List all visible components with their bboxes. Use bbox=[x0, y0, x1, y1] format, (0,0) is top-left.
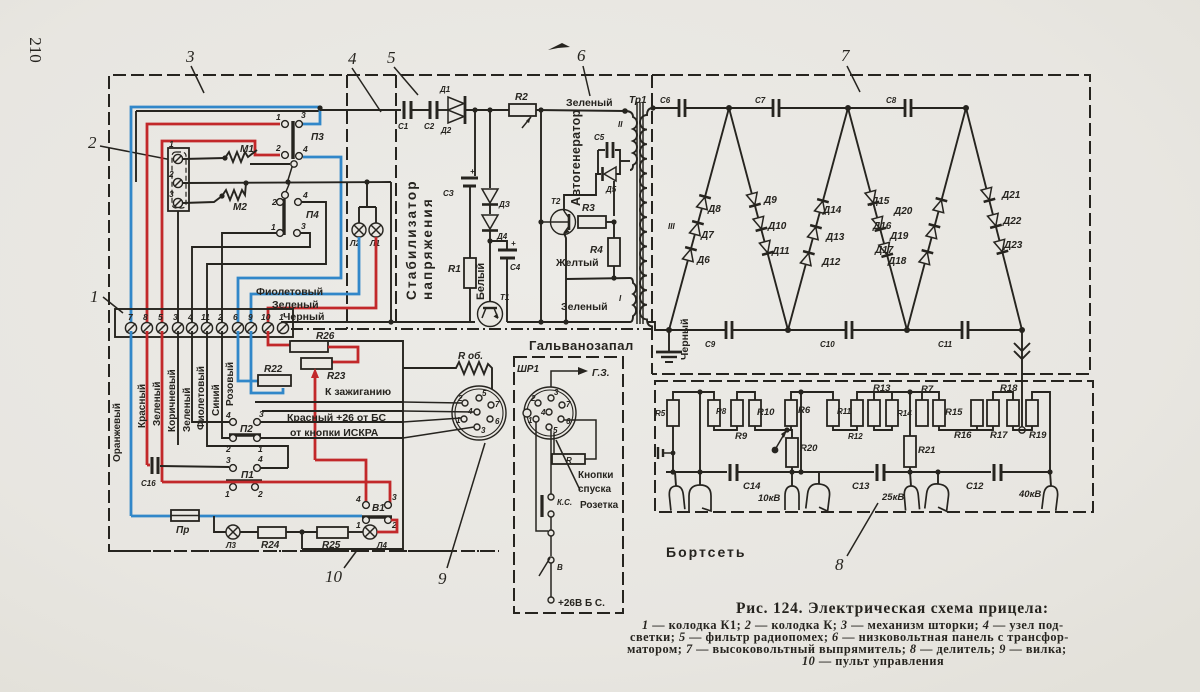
vertical color names bbox=[112, 362, 236, 462]
svg-text:R23: R23 bbox=[327, 371, 346, 382]
wire: C3 branch bbox=[474, 110, 476, 176]
svg-text:+: + bbox=[470, 167, 475, 176]
capacitor С11 bbox=[962, 321, 968, 339]
svg-text:Д15: Д15 bbox=[870, 196, 890, 207]
diode Д11 bbox=[759, 240, 774, 255]
resistor R23 bbox=[301, 358, 332, 369]
resistor R19 bbox=[1026, 400, 1038, 426]
wire: Д3-Д4 branch bbox=[489, 110, 491, 188]
resistor R25 bbox=[317, 527, 348, 538]
probe 5 bbox=[904, 485, 920, 510]
svg-text:2: 2 bbox=[457, 394, 463, 403]
wire: bottom bus bbox=[648, 322, 726, 330]
wire: black top bus bbox=[136, 110, 320, 112]
Г.З. arrow bbox=[551, 371, 582, 393]
svg-text:Т2: Т2 bbox=[551, 197, 561, 206]
svg-text:Коричневый: Коричневый bbox=[167, 369, 178, 432]
svg-text:Автогенератор: Автогенератор bbox=[569, 109, 583, 206]
wire: П1-4 nest bbox=[261, 467, 288, 469]
wire: black circle3 down bbox=[177, 331, 179, 445]
motor M2 zigzag bbox=[222, 183, 246, 200]
block 8 dashed box bbox=[655, 381, 1093, 512]
wire: П4-4 right-down nest bbox=[207, 202, 326, 326]
wire: black circle11 down bbox=[207, 331, 288, 468]
wire: screw2 bus y=183 bbox=[183, 182, 391, 183]
svg-text:С5: С5 bbox=[594, 133, 605, 142]
svg-text:Д23: Д23 bbox=[1003, 240, 1023, 251]
diode Д1 bbox=[448, 97, 464, 110]
svg-text:П2: П2 bbox=[240, 424, 253, 435]
wire: black circle2 down to П2-2 bbox=[222, 331, 229, 438]
resistor R17 bbox=[987, 400, 999, 426]
svg-text:R2: R2 bbox=[515, 92, 528, 103]
svg-text:Д20: Д20 bbox=[893, 206, 913, 217]
svg-text:Оранжевый: Оранжевый bbox=[112, 403, 123, 462]
svg-text:Д16: Д16 bbox=[872, 221, 892, 232]
svg-text:1: 1 bbox=[279, 312, 284, 322]
svg-text:Тр1: Тр1 bbox=[629, 95, 647, 106]
svg-text:С16: С16 bbox=[141, 479, 156, 488]
svg-text:Белый: Белый bbox=[475, 263, 487, 300]
svg-text:Д21: Д21 bbox=[1001, 190, 1021, 201]
diode Д18 bbox=[919, 250, 934, 265]
block 3|4 dashed divider bbox=[346, 75, 348, 329]
resistor R6 bbox=[785, 400, 797, 426]
svg-text:4: 4 bbox=[187, 312, 193, 322]
svg-text:3: 3 bbox=[169, 189, 174, 199]
svg-text:R3: R3 bbox=[582, 203, 595, 214]
svg-text:Стабилизатор: Стабилизатор bbox=[404, 179, 419, 300]
wire: horizontal y=402 bbox=[255, 401, 403, 403]
resistor R7 bbox=[916, 400, 928, 426]
svg-text:К.С.: К.С. bbox=[557, 498, 572, 507]
capacitor C1 bbox=[398, 101, 411, 131]
wire: red around Л4 to B1 bbox=[377, 520, 397, 532]
svg-text:спуска: спуска bbox=[578, 484, 611, 495]
svg-text:Д8: Д8 bbox=[707, 204, 721, 215]
svg-text:Д18: Д18 bbox=[887, 256, 907, 267]
diode Д23 bbox=[994, 239, 1009, 254]
svg-text:9: 9 bbox=[248, 312, 253, 322]
wire: П4-1 nest to circle 2 bbox=[222, 233, 276, 326]
wire: screw3 to M2 bbox=[183, 196, 222, 203]
svg-text:2: 2 bbox=[168, 169, 174, 179]
svg-text:4: 4 bbox=[225, 410, 231, 420]
svg-text:Д1: Д1 bbox=[439, 85, 451, 94]
svg-text:Зеленый: Зеленый bbox=[152, 382, 163, 426]
svg-text:11: 11 bbox=[201, 312, 210, 322]
svg-text:9: 9 bbox=[438, 569, 447, 588]
svg-text:R17: R17 bbox=[990, 430, 1008, 441]
svg-text:С7: С7 bbox=[755, 96, 766, 105]
pins bbox=[476, 395, 482, 401]
svg-text:3: 3 bbox=[392, 492, 397, 502]
capacitor C4 (+) bbox=[490, 239, 521, 322]
wire: П3 wiper branch bbox=[250, 163, 290, 165]
svg-text:6: 6 bbox=[566, 417, 571, 426]
svg-text:1: 1 bbox=[225, 489, 230, 499]
svg-text:R22: R22 bbox=[264, 364, 283, 375]
resistor R4 bbox=[608, 238, 620, 266]
svg-text:3: 3 bbox=[226, 455, 231, 465]
svg-text:R4: R4 bbox=[590, 245, 603, 256]
probe 3 bbox=[785, 486, 799, 510]
diode Д4 bbox=[482, 215, 498, 229]
multiplier branch 1 bbox=[669, 108, 729, 330]
resistor R5 bbox=[667, 400, 679, 426]
diode Д10 bbox=[753, 216, 768, 231]
wire: screw block down to strip circle 3 bbox=[177, 211, 179, 326]
resistor R22 bbox=[258, 375, 291, 386]
svg-text:4: 4 bbox=[348, 49, 357, 68]
svg-text:Д6: Д6 bbox=[696, 255, 710, 266]
svg-text:2: 2 bbox=[88, 133, 97, 152]
svg-text:2: 2 bbox=[275, 143, 281, 153]
diode Д19 bbox=[926, 224, 941, 239]
switch П1 bbox=[225, 454, 263, 499]
svg-text:С13: С13 bbox=[852, 481, 870, 492]
resistor R14 bbox=[886, 400, 898, 426]
diode Д5 bbox=[604, 167, 616, 181]
svg-text:+26В Б С.: +26В Б С. bbox=[558, 598, 605, 609]
svg-text:3: 3 bbox=[301, 221, 306, 231]
resistor R21 vertical bbox=[904, 436, 916, 467]
svg-text:1: 1 bbox=[271, 222, 276, 232]
svg-text:1: 1 bbox=[276, 112, 281, 122]
кнопки спуска box bbox=[552, 454, 585, 464]
wire: red circle5 down bbox=[161, 331, 164, 482]
wire: Т2 emitter down bbox=[564, 233, 566, 322]
svg-text:4: 4 bbox=[257, 454, 263, 464]
svg-text:3: 3 bbox=[259, 409, 264, 419]
svg-text:ДЗ: ДЗ bbox=[498, 200, 510, 209]
HV output arrow down bbox=[1014, 330, 1030, 433]
svg-text:R11: R11 bbox=[837, 407, 852, 416]
input connector symbol left bbox=[658, 447, 675, 459]
svg-text:R об.: R об. bbox=[458, 350, 483, 362]
winding I bbox=[630, 278, 636, 322]
svg-text:Д10: Д10 bbox=[767, 221, 787, 232]
svg-text:К зажиганию: К зажиганию bbox=[325, 386, 391, 398]
svg-text:Пр: Пр bbox=[176, 525, 189, 536]
svg-text:П1: П1 bbox=[241, 470, 254, 481]
svg-text:Д4: Д4 bbox=[496, 232, 508, 241]
svg-text:Зеленый: Зеленый bbox=[561, 301, 608, 313]
svg-text:1: 1 bbox=[258, 444, 263, 454]
wire: blue to П3 pin3 bbox=[300, 108, 320, 124]
svg-text:5: 5 bbox=[158, 312, 163, 322]
svg-text:7: 7 bbox=[495, 400, 500, 409]
resistor R24 bbox=[240, 531, 258, 533]
svg-text:П4: П4 bbox=[306, 210, 319, 221]
winding II bbox=[625, 111, 637, 170]
bottom links y=430 bbox=[714, 426, 737, 430]
svg-text:СЗ: СЗ bbox=[443, 189, 454, 198]
svg-text:Желтый: Желтый bbox=[555, 257, 599, 269]
svg-text:R24: R24 bbox=[261, 540, 280, 551]
wire: left vertical of autogen bbox=[540, 110, 542, 322]
horizontal dash-dot border y=329 bbox=[291, 328, 651, 330]
resistor R9 bbox=[731, 400, 743, 426]
diode Д9 bbox=[746, 192, 761, 207]
top links y=392 bbox=[673, 392, 714, 400]
svg-text:С10: С10 bbox=[820, 340, 835, 349]
svg-text:R5: R5 bbox=[655, 409, 666, 418]
wire: red circle8 down to C16 bbox=[146, 331, 149, 465]
probe 6 bbox=[925, 483, 950, 511]
capacitor С14 bbox=[730, 464, 761, 492]
svg-text:Розовый: Розовый bbox=[225, 362, 236, 406]
svg-text:R10: R10 bbox=[757, 407, 775, 418]
svg-text:6: 6 bbox=[495, 417, 500, 426]
svg-text:Д5: Д5 bbox=[605, 185, 617, 194]
svg-text:R15: R15 bbox=[945, 407, 963, 418]
svg-text:С6: С6 bbox=[660, 96, 671, 105]
svg-text:С9: С9 bbox=[705, 340, 716, 349]
multiplier branch 4 bbox=[848, 108, 907, 330]
resistor R12 bbox=[851, 400, 863, 426]
svg-text:4: 4 bbox=[540, 408, 546, 417]
resistor R11 bbox=[827, 400, 839, 426]
capacitor С9 bbox=[726, 321, 732, 339]
svg-text:10 — пульт управления: 10 — пульт управления bbox=[802, 654, 944, 668]
svg-text:Бортсеть: Бортсеть bbox=[666, 544, 747, 560]
block 7 dashed box bbox=[652, 75, 1090, 374]
svg-text:6: 6 bbox=[233, 312, 238, 322]
multiplier branch 2 bbox=[729, 108, 788, 330]
block 6|7 dashed divider bbox=[651, 75, 653, 374]
wire: П4-3 nest bbox=[192, 233, 310, 326]
svg-text:2: 2 bbox=[225, 444, 231, 454]
svg-text:R21: R21 bbox=[918, 445, 935, 456]
wire: top bus into block 6 bbox=[320, 109, 401, 111]
svg-text:С1: С1 bbox=[398, 122, 409, 131]
svg-text:напряжения: напряжения bbox=[420, 197, 435, 300]
svg-text:Д11: Д11 bbox=[771, 246, 790, 257]
svg-text:С8: С8 bbox=[886, 96, 897, 105]
wire: П2-1 right bbox=[261, 437, 403, 439]
svg-text:Д7: Д7 bbox=[700, 230, 714, 241]
svg-text:С14: С14 bbox=[743, 481, 761, 492]
svg-text:210: 210 bbox=[26, 37, 45, 63]
bottom bus y=472 with caps bbox=[666, 471, 727, 473]
resistor R8 bbox=[708, 400, 720, 426]
wiper of R20 bbox=[776, 431, 786, 448]
svg-text:С11: С11 bbox=[938, 340, 953, 349]
wire: red circle10 down to R26 bbox=[268, 331, 290, 345]
svg-text:II: II bbox=[618, 120, 623, 129]
svg-text:2: 2 bbox=[217, 312, 223, 322]
resistor R15 bbox=[933, 400, 945, 426]
multiplier branch 3 bbox=[788, 108, 848, 330]
svg-text:R26: R26 bbox=[316, 331, 335, 342]
svg-text:R9: R9 bbox=[735, 431, 748, 442]
wire: blue circle7 down bbox=[130, 331, 133, 516]
diode Д20 bbox=[933, 198, 948, 213]
wire: horizontal y=411 bbox=[262, 410, 403, 412]
svg-text:В: В bbox=[557, 563, 563, 572]
switch П3 bbox=[275, 110, 324, 159]
resistor R1 bbox=[464, 258, 476, 288]
svg-text:Г.З.: Г.З. bbox=[592, 368, 610, 379]
motor M1 zigzag bbox=[225, 150, 257, 162]
switch В1 bbox=[355, 492, 397, 530]
diode Д15 bbox=[865, 190, 880, 205]
svg-text:R6: R6 bbox=[798, 405, 811, 416]
svg-text:М2: М2 bbox=[233, 202, 247, 213]
multiplier branch 6 bbox=[966, 108, 1022, 330]
wire: node to R4 bbox=[613, 222, 615, 238]
fuse Пр bbox=[171, 510, 199, 521]
block 4|6 dashed divider bbox=[395, 75, 397, 329]
svg-text:R20: R20 bbox=[800, 443, 818, 454]
pins bbox=[548, 395, 554, 401]
svg-text:ШР1: ШР1 bbox=[517, 364, 539, 375]
capacitor С12 bbox=[966, 464, 1001, 492]
svg-text:Зеленый: Зеленый bbox=[182, 388, 193, 432]
svg-text:Д13: Д13 bbox=[825, 232, 845, 243]
wire: black circle4 down to П2-4 bbox=[192, 331, 229, 422]
svg-text:III: III bbox=[668, 222, 675, 231]
svg-text:Д17: Д17 bbox=[874, 245, 894, 256]
svg-text:1: 1 bbox=[169, 139, 174, 149]
svg-text:6: 6 bbox=[577, 46, 586, 65]
svg-text:10: 10 bbox=[261, 312, 271, 322]
svg-text:Гальванозапал: Гальванозапал bbox=[529, 338, 634, 353]
svg-text:Фиолетовый: Фиолетовый bbox=[196, 366, 207, 430]
resistor R2 bbox=[509, 104, 536, 116]
node on top bus bbox=[317, 105, 322, 110]
svg-text:Д19: Д19 bbox=[889, 231, 909, 242]
resistor R20 vertical bbox=[786, 438, 798, 467]
fan wires from пульт to pins bbox=[403, 402, 462, 403]
wire: red R26 to R23 bbox=[328, 347, 358, 362]
svg-text:Л4: Л4 bbox=[376, 541, 387, 550]
svg-text:3: 3 bbox=[554, 388, 559, 397]
capacitor С7 bbox=[773, 99, 779, 117]
wire: bus to transformer bbox=[536, 110, 625, 111]
resistor R18 bbox=[1007, 400, 1019, 426]
wire: blue circle6 down to R22 bbox=[238, 331, 258, 381]
wire: blue top bbox=[131, 107, 321, 326]
svg-text:7: 7 bbox=[566, 400, 571, 409]
узел подсветки lamps bbox=[349, 182, 383, 248]
svg-text:Д9: Д9 bbox=[763, 195, 777, 206]
svg-text:Кнопки: Кнопки bbox=[578, 470, 613, 481]
svg-text:1: 1 bbox=[356, 520, 361, 530]
wire: red arrow up to R23 and down bbox=[314, 372, 317, 460]
svg-text:R12: R12 bbox=[848, 432, 863, 441]
svg-text:4: 4 bbox=[355, 494, 361, 504]
svg-text:3: 3 bbox=[301, 110, 306, 120]
svg-text:С2: С2 bbox=[424, 122, 435, 131]
lamp Л1 bbox=[369, 223, 383, 237]
svg-text:В1: В1 bbox=[372, 503, 385, 514]
diode Д21 bbox=[981, 187, 996, 202]
svg-text:Д2: Д2 bbox=[440, 126, 452, 135]
svg-text:Л3: Л3 bbox=[225, 541, 236, 550]
svg-text:R19: R19 bbox=[1029, 430, 1047, 441]
capacitor С10 bbox=[846, 321, 852, 339]
wire: bus y=182 to lamps and down bbox=[390, 182, 392, 322]
capacitor C16 bbox=[141, 457, 158, 488]
svg-text:1: 1 bbox=[90, 287, 99, 306]
svg-text:1: 1 bbox=[528, 416, 533, 425]
svg-text:4: 4 bbox=[302, 190, 308, 200]
wire: П2-3 right bbox=[261, 421, 403, 423]
probe 4 bbox=[806, 483, 831, 511]
lamp Л2 bbox=[352, 223, 366, 237]
svg-text:R16: R16 bbox=[954, 430, 972, 441]
svg-text:Розетка: Розетка bbox=[580, 500, 619, 511]
svg-text:10кВ: 10кВ bbox=[758, 493, 780, 504]
resistor R13 bbox=[868, 400, 880, 426]
resistor R26 bbox=[290, 341, 328, 352]
diode Д13 bbox=[807, 225, 822, 240]
capacitor C5 and diode Д5 loop bbox=[594, 133, 630, 194]
wire: emitter link y=279 bbox=[566, 278, 630, 279]
svg-text:Д12: Д12 bbox=[821, 257, 841, 268]
svg-text:Т1: Т1 bbox=[500, 293, 510, 302]
svg-text:Фиолетовый: Фиолетовый bbox=[256, 286, 323, 298]
switch В bbox=[548, 557, 554, 563]
svg-text:Д14: Д14 bbox=[822, 205, 842, 216]
svg-text:3: 3 bbox=[185, 47, 195, 66]
lamp Л4 bbox=[363, 525, 377, 539]
svg-text:+: + bbox=[511, 239, 516, 248]
svg-text:R8: R8 bbox=[716, 407, 727, 416]
svg-text:2: 2 bbox=[271, 197, 277, 207]
capacitor C2 bbox=[424, 101, 437, 131]
switch П2 bbox=[225, 409, 264, 454]
transistor Т1 bbox=[478, 293, 510, 327]
svg-text:10: 10 bbox=[325, 567, 343, 586]
wire: red 1 bbox=[147, 124, 280, 326]
diode Д7 bbox=[689, 221, 704, 236]
probe 7 bbox=[1042, 485, 1059, 511]
resistor R10 bbox=[749, 400, 761, 426]
колодка К (item 2) bbox=[168, 139, 189, 211]
svg-text:Черный: Черный bbox=[679, 319, 691, 360]
wire: C16 to П1-3 bbox=[160, 466, 229, 467]
svg-text:Синий: Синий bbox=[211, 384, 222, 416]
wire: bus after diodes bbox=[465, 109, 509, 111]
wire: black bottom bus (Черный) from circle 1 to stabilizer bbox=[282, 322, 475, 326]
plug circle bbox=[452, 386, 506, 440]
svg-text:3: 3 bbox=[481, 426, 486, 435]
probe 2 bbox=[689, 485, 711, 511]
wire: top bus bbox=[653, 107, 679, 109]
diode Д6 bbox=[682, 247, 697, 262]
inner solid box edges bbox=[291, 341, 403, 549]
svg-text:4: 4 bbox=[302, 144, 308, 154]
diode Д12 bbox=[800, 251, 815, 266]
wire: blue from Л2 to circle 9 bbox=[251, 237, 359, 326]
К.С. contact bbox=[540, 495, 543, 517]
svg-text:П3: П3 bbox=[311, 132, 324, 143]
wire: bypass from pin1 bbox=[536, 422, 548, 531]
diode Д17 bbox=[878, 242, 893, 257]
vertical feeders bbox=[699, 392, 701, 472]
svg-text:3: 3 bbox=[173, 312, 178, 322]
svg-text:5: 5 bbox=[387, 48, 396, 67]
svg-text:2: 2 bbox=[257, 489, 263, 499]
diode Д22 bbox=[987, 213, 1002, 228]
svg-text:Красный: Красный bbox=[137, 384, 148, 428]
svg-text:С12: С12 bbox=[966, 481, 984, 492]
diode Д16 bbox=[872, 216, 887, 231]
svg-text:R25: R25 bbox=[322, 540, 341, 551]
